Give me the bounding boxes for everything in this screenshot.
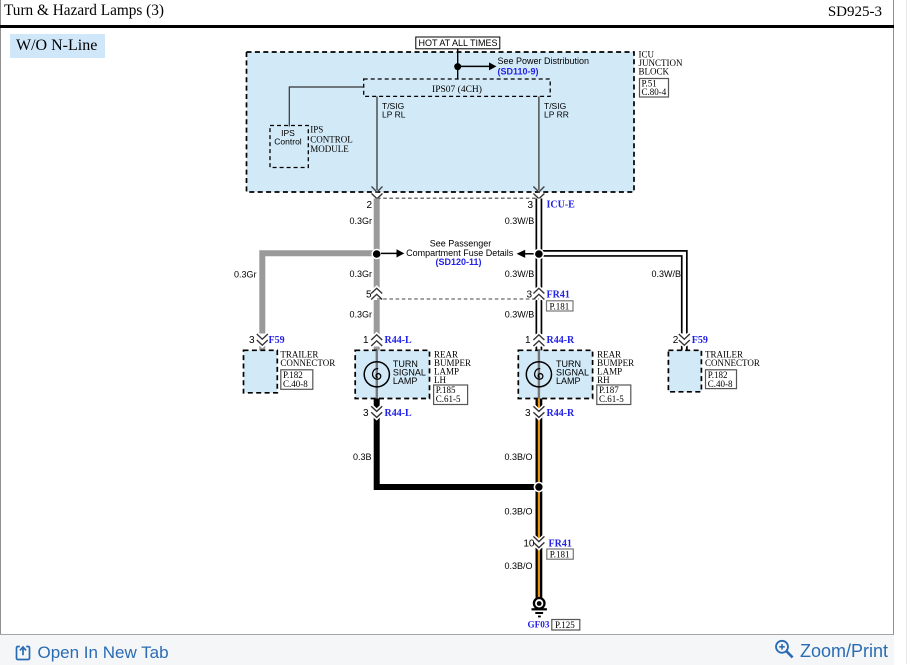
svg-text:0.3B/O: 0.3B/O xyxy=(504,507,532,517)
svg-text:10: 10 xyxy=(523,539,535,550)
svg-text:CONNECTOR: CONNECTOR xyxy=(705,358,760,368)
svg-text:2: 2 xyxy=(673,335,679,346)
svg-text:P.181: P.181 xyxy=(550,550,570,560)
svg-text:Control: Control xyxy=(274,137,302,147)
svg-text:C.80-4: C.80-4 xyxy=(642,87,667,97)
svg-text:1: 1 xyxy=(363,335,369,346)
svg-text:See Power Distribution: See Power Distribution xyxy=(498,56,590,66)
svg-text:F59: F59 xyxy=(692,335,708,346)
svg-text:0.3Gr: 0.3Gr xyxy=(234,270,257,280)
svg-text:0.3W/B: 0.3W/B xyxy=(505,216,535,226)
svg-text:HOT AT ALL TIMES: HOT AT ALL TIMES xyxy=(418,38,497,48)
svg-text:GF03: GF03 xyxy=(528,620,550,630)
svg-text:3: 3 xyxy=(525,408,531,419)
svg-text:LAMP: LAMP xyxy=(393,376,418,386)
svg-text:C.40-8: C.40-8 xyxy=(708,379,733,389)
svg-text:0.3Gr: 0.3Gr xyxy=(349,216,372,226)
svg-text:F59: F59 xyxy=(269,335,285,346)
svg-text:3: 3 xyxy=(526,289,532,300)
svg-text:1: 1 xyxy=(525,335,531,346)
svg-text:LP RL: LP RL xyxy=(382,110,406,120)
svg-text:LAMP: LAMP xyxy=(556,376,581,386)
svg-text:0.3Gr: 0.3Gr xyxy=(349,269,372,279)
svg-text:C.61-5: C.61-5 xyxy=(599,394,624,404)
svg-text:3: 3 xyxy=(249,335,255,346)
svg-text:P.181: P.181 xyxy=(550,301,570,311)
svg-text:IPS07 (4CH): IPS07 (4CH) xyxy=(432,84,482,95)
svg-text:P.125: P.125 xyxy=(555,620,575,630)
svg-text:0.3B/O: 0.3B/O xyxy=(504,452,532,462)
svg-text:0.3B: 0.3B xyxy=(353,452,372,462)
svg-text:C.40-8: C.40-8 xyxy=(283,379,308,389)
svg-text:R44-L: R44-L xyxy=(385,335,413,346)
svg-text:CONTROL: CONTROL xyxy=(310,134,353,144)
svg-text:ICU-E: ICU-E xyxy=(547,200,576,211)
svg-text:0.3B/O: 0.3B/O xyxy=(504,561,532,571)
svg-text:R44-R: R44-R xyxy=(547,408,576,419)
svg-text:0.3W/B: 0.3W/B xyxy=(505,310,535,320)
svg-text:IPS: IPS xyxy=(310,125,323,135)
svg-text:LP RR: LP RR xyxy=(544,110,569,120)
svg-text:C.61-5: C.61-5 xyxy=(436,394,461,404)
svg-text:RH: RH xyxy=(597,375,610,385)
svg-text:(SD110-9): (SD110-9) xyxy=(498,67,539,77)
svg-text:0.3W/B: 0.3W/B xyxy=(651,269,681,279)
svg-text:MODULE: MODULE xyxy=(310,144,349,154)
svg-text:FR41: FR41 xyxy=(549,539,572,550)
svg-text:R44-R: R44-R xyxy=(547,335,576,346)
svg-text:3: 3 xyxy=(363,408,369,419)
svg-text:CONNECTOR: CONNECTOR xyxy=(280,358,335,368)
svg-text:0.3Gr: 0.3Gr xyxy=(349,310,372,320)
svg-text:2: 2 xyxy=(366,200,372,211)
svg-text:(SD120-11): (SD120-11) xyxy=(435,257,481,267)
svg-text:0.3W/B: 0.3W/B xyxy=(505,269,535,279)
svg-text:FR41: FR41 xyxy=(547,290,570,301)
svg-text:LH: LH xyxy=(434,375,446,385)
svg-text:R44-L: R44-L xyxy=(385,408,413,419)
svg-text:BLOCK: BLOCK xyxy=(639,67,670,77)
svg-text:3: 3 xyxy=(527,200,533,211)
svg-text:5: 5 xyxy=(366,289,372,300)
